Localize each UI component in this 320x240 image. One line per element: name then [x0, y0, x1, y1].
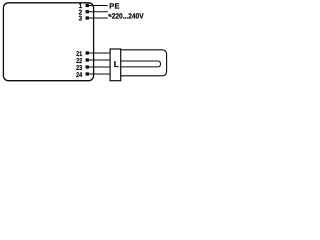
pin 1	[79, 3, 89, 10]
wire pin 3 to mains	[87, 17, 108, 19]
svg-text:L: L	[114, 59, 119, 69]
svg-text:23: 23	[76, 65, 82, 72]
wire pin 1 to PE	[87, 5, 108, 7]
ballast box outline	[3, 3, 93, 81]
svg-text:PE: PE	[109, 2, 119, 11]
svg-text:22: 22	[76, 58, 82, 65]
lamp base	[110, 49, 121, 81]
AC symbol	[109, 14, 112, 16]
wire pin 24 to lamp	[87, 73, 111, 75]
pin 3	[79, 16, 89, 23]
svg-text:3: 3	[79, 16, 83, 23]
pin 24	[76, 72, 89, 79]
pin 22	[76, 58, 89, 65]
svg-text:220...240V: 220...240V	[112, 12, 144, 21]
wire pin 22 to lamp	[87, 59, 111, 61]
pin 21	[76, 51, 89, 58]
wire pin 23 to lamp	[87, 66, 111, 68]
pin 2	[79, 9, 89, 16]
lamp tube outline	[121, 50, 167, 76]
wire pin 21 to lamp	[87, 52, 111, 54]
svg-text:24: 24	[76, 72, 82, 79]
svg-text:21: 21	[76, 51, 82, 58]
lamp tube fold slot	[121, 61, 161, 67]
wire pin 2 to mains	[87, 11, 108, 13]
pin 23	[76, 65, 89, 72]
